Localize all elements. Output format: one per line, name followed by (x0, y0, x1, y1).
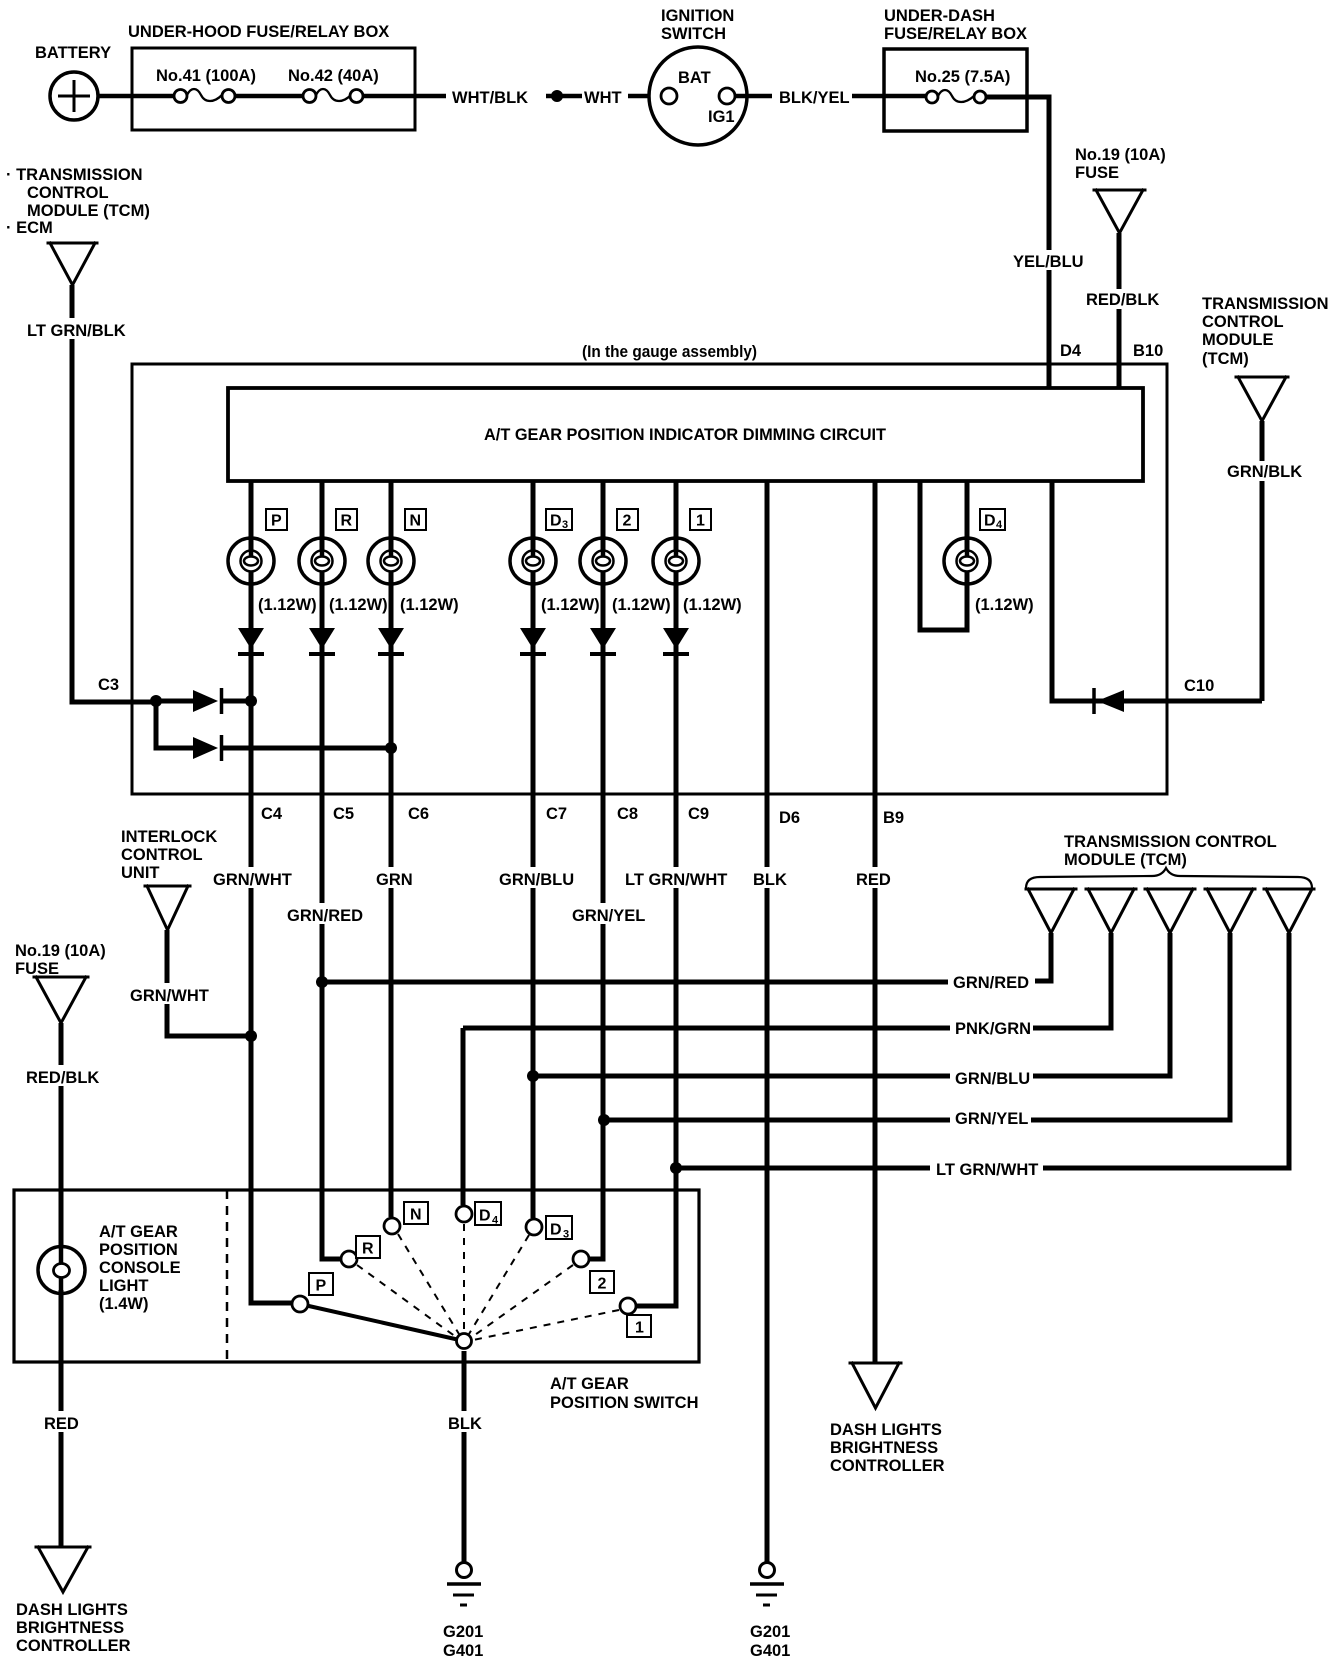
diode under bulb P (238, 628, 264, 654)
junction node on C4 (245, 1030, 257, 1042)
svg-text:(In the gauge assembly): (In the gauge assembly) (582, 343, 757, 361)
svg-text:G401: G401 (443, 1642, 483, 1660)
svg-text:D: D (479, 1208, 491, 1225)
svg-text:CONTROLLER: CONTROLLER (830, 1457, 945, 1475)
wire C4 corner to P contact (251, 1300, 292, 1303)
svg-text:POSITION: POSITION (99, 1241, 178, 1259)
battery (50, 72, 98, 120)
contact N (384, 1218, 400, 1234)
contact R (341, 1251, 357, 1267)
svg-text:A/T GEAR: A/T GEAR (550, 1375, 629, 1393)
wire console light down (59, 1290, 64, 1548)
svg-text:LIGHT: LIGHT (99, 1277, 149, 1295)
A/T gear position indicator dimming circuit box (228, 388, 1143, 481)
svg-text:(1.12W): (1.12W) (329, 596, 388, 614)
wire column B9 (873, 481, 878, 794)
svg-text:D4: D4 (1060, 342, 1082, 360)
svg-text:(1.12W): (1.12W) (612, 596, 671, 614)
GRN/BLU stub to TCM pin 3 (1033, 933, 1170, 1076)
YEL/BLU label (1011, 250, 1086, 271)
label box 2 (617, 509, 638, 530)
TCM/ECM connector triangle (left) (48, 243, 97, 285)
TCM connector triangle (right) (1236, 377, 1288, 421)
svg-text:G201: G201 (443, 1623, 483, 1641)
GRN/YEL label (569, 903, 645, 925)
bulb P (228, 538, 274, 584)
TCM pin triangle 2 (1086, 889, 1136, 933)
wire column N (C6) (389, 481, 394, 794)
wire column D3 (C7) (531, 481, 536, 794)
svg-text:RED: RED (44, 1415, 79, 1433)
terminal IG1 (719, 88, 735, 104)
wire to WHT/BLK label (363, 94, 446, 99)
svg-text:P: P (271, 513, 282, 530)
under-dash fuse/relay box (884, 49, 1027, 131)
LT GRN/WHT line (676, 1166, 930, 1171)
svg-text:RED/BLK: RED/BLK (26, 1069, 99, 1087)
svg-text:GRN/YEL: GRN/YEL (955, 1110, 1028, 1128)
svg-text:CONTROL: CONTROL (121, 846, 203, 864)
svg-text:RED: RED (856, 871, 891, 889)
svg-text:No.42 (40A): No.42 (40A) (288, 67, 379, 85)
dashed line D4 to common (463, 1224, 465, 1333)
wire to BLK/YEL (736, 94, 772, 99)
TCM pin triangle 1 (1026, 889, 1076, 933)
label box 1 (switch) (627, 1315, 651, 1337)
wire LT GRN/BLK down to C3 (72, 285, 156, 702)
svg-text:G201: G201 (750, 1623, 790, 1641)
junction node (551, 90, 563, 102)
junction node on C5 (316, 976, 328, 988)
C3 branch wire to diode 1 (156, 699, 193, 704)
RED label (853, 867, 894, 889)
svg-text:C9: C9 (688, 805, 709, 823)
dashed line R to common (357, 1265, 456, 1337)
svg-text:· ECM: · ECM (6, 219, 53, 237)
dashed line N to common (398, 1234, 459, 1334)
svg-text:No.19 (10A): No.19 (10A) (15, 942, 106, 960)
svg-text:C3: C3 (98, 676, 119, 694)
junction node C3 (150, 695, 162, 707)
svg-text:R: R (341, 513, 353, 530)
dashed divider (226, 1190, 229, 1362)
PNK/GRN stub to TCM pin 2 (1033, 933, 1111, 1028)
GRN/BLK label (1225, 461, 1302, 481)
svg-text:DASH LIGHTS: DASH LIGHTS (830, 1421, 942, 1439)
bulb D4 (944, 538, 990, 584)
svg-text:INTERLOCK: INTERLOCK (121, 828, 217, 846)
fuse No.42 (303, 89, 363, 103)
TCM pin triangle 4 (1205, 889, 1255, 933)
label box R (switch) (356, 1236, 380, 1258)
wire YEL/BLU from fuse down to gauge assembly D4 (986, 97, 1049, 388)
contact 1 (620, 1298, 636, 1314)
diode under bulb 1 (663, 628, 689, 654)
svg-text:No.19 (10A): No.19 (10A) (1075, 146, 1166, 164)
wire C9 corner to 1 contact (637, 1302, 676, 1306)
contact D3 (526, 1219, 542, 1235)
svg-text:TRANSMISSION: TRANSMISSION (1202, 295, 1329, 313)
svg-text:BRIGHTNESS: BRIGHTNESS (830, 1439, 938, 1457)
svg-text:TRANSMISSION CONTROL: TRANSMISSION CONTROL (1064, 833, 1277, 851)
svg-text:FUSE/RELAY BOX: FUSE/RELAY BOX (884, 25, 1027, 43)
svg-text:UNDER-HOOD FUSE/RELAY BOX: UNDER-HOOD FUSE/RELAY BOX (128, 23, 389, 41)
svg-text:N: N (410, 1207, 422, 1224)
svg-text:BLK: BLK (448, 1415, 482, 1433)
contact 2 (573, 1251, 589, 1267)
label box 2 (switch) (590, 1271, 614, 1293)
wire column D6 (765, 481, 770, 794)
GRN label (373, 867, 415, 889)
svg-text:GRN/BLK: GRN/BLK (1227, 463, 1302, 481)
svg-text:N: N (410, 513, 422, 530)
svg-text:C7: C7 (546, 805, 567, 823)
svg-text:BRIGHTNESS: BRIGHTNESS (16, 1619, 124, 1637)
common contact (457, 1334, 472, 1349)
svg-text:(1.12W): (1.12W) (400, 596, 459, 614)
svg-text:BLK: BLK (753, 871, 787, 889)
interlock GRN/WHT wire to C4 (167, 930, 251, 1036)
svg-text:C4: C4 (261, 805, 283, 823)
wiper P to common (solid) (300, 1304, 464, 1341)
wire RED/BLK down to console light (59, 1023, 64, 1247)
BLK wire label (switch ground) (445, 1411, 485, 1433)
svg-text:3: 3 (562, 519, 568, 531)
svg-text:PNK/GRN: PNK/GRN (955, 1020, 1031, 1038)
wire D6 (BLK) down to ground (765, 794, 770, 1563)
svg-text:(TCM): (TCM) (1202, 350, 1249, 368)
svg-text:RED/BLK: RED/BLK (1086, 291, 1159, 309)
wire segment with junction (546, 94, 582, 99)
svg-text:GRN/WHT: GRN/WHT (213, 871, 292, 889)
C10 drop wire from dimming circuit (1052, 481, 1262, 701)
svg-text:(1.12W): (1.12W) (683, 596, 742, 614)
svg-text:A/T GEAR: A/T GEAR (99, 1223, 178, 1241)
junction node on C8 (598, 1114, 610, 1126)
ground G201/G401 (switch) (447, 1563, 481, 1606)
LT GRN/BLK label (24, 318, 134, 340)
wire into under-dash box (852, 94, 926, 99)
wire to ignition switch (628, 94, 662, 99)
svg-text:No.25 (7.5A): No.25 (7.5A) (915, 68, 1010, 86)
svg-text:1: 1 (696, 513, 705, 530)
wire C8 corner to 2 contact (590, 1255, 603, 1259)
label box D3 (546, 509, 572, 531)
svg-text:(1.12W): (1.12W) (541, 596, 600, 614)
svg-text:GRN/WHT: GRN/WHT (130, 987, 209, 1005)
svg-text:WHT: WHT (584, 89, 622, 107)
wire column 2 (C8) (601, 481, 606, 794)
svg-text:(1.4W): (1.4W) (99, 1295, 149, 1313)
GRN/YEL stub to TCM pin 4 (1031, 933, 1230, 1120)
junction node on C9 (670, 1162, 682, 1174)
svg-text:GRN: GRN (376, 871, 413, 889)
wire diode1 to column P (223, 699, 251, 704)
label box D3 (switch) (546, 1216, 572, 1241)
GRN/BLU line (533, 1074, 950, 1079)
wire C9 (LT GRN/WHT) below gauge box (674, 794, 679, 1306)
diode under bulb N (378, 628, 404, 654)
A/T gear position switch box (14, 1190, 699, 1362)
dashed line D3 to common (469, 1235, 529, 1334)
svg-text:LT GRN/WHT: LT GRN/WHT (625, 871, 727, 889)
svg-text:2: 2 (623, 513, 632, 530)
wire diode2 to column N (223, 746, 391, 751)
svg-text:C6: C6 (408, 805, 429, 823)
RED wire label (left) (41, 1411, 82, 1433)
svg-text:GRN/YEL: GRN/YEL (572, 907, 645, 925)
TCM connector brace (1026, 868, 1312, 888)
TCM pin triangle 5 (1264, 889, 1314, 933)
svg-text:D: D (984, 513, 996, 530)
svg-text:MODULE (TCM): MODULE (TCM) (27, 202, 150, 220)
wire C4 (GRN/WHT) below gauge box (249, 794, 254, 1303)
label box P (switch) (309, 1273, 333, 1295)
dash lights brightness controller triangle (left) (36, 1547, 90, 1592)
wire C7 (GRN/BLU) below gauge box (531, 794, 536, 1218)
contact P (292, 1296, 308, 1312)
svg-text:(1.12W): (1.12W) (258, 596, 317, 614)
bulb 1 (653, 538, 699, 584)
wire C5 (GRN/RED) below gauge box (320, 794, 325, 1259)
dashed line 1 to common (473, 1310, 619, 1340)
fuse No.19 connector triangle (left) (34, 977, 88, 1023)
svg-text:D6: D6 (779, 809, 800, 827)
svg-text:LT GRN/BLK: LT GRN/BLK (27, 322, 126, 340)
label box N (switch) (404, 1202, 428, 1224)
svg-text:BLK/YEL: BLK/YEL (779, 89, 850, 107)
gauge assembly outer box (132, 364, 1167, 794)
GRN/YEL line (604, 1118, 950, 1123)
label box N (405, 509, 426, 530)
interlock connector triangle (145, 886, 190, 930)
wire C6 (GRN) below gauge box (389, 794, 394, 1217)
svg-text:BATTERY: BATTERY (35, 44, 111, 62)
svg-text:WHT/BLK: WHT/BLK (452, 89, 528, 107)
svg-text:FUSE: FUSE (1075, 164, 1119, 182)
svg-text:2: 2 (598, 1276, 607, 1293)
label box D4 (switch) (475, 1202, 501, 1227)
svg-text:D: D (550, 1222, 562, 1239)
wire column 1 (C9) (674, 481, 679, 794)
svg-text:UNIT: UNIT (121, 864, 160, 882)
wire B9 (RED) down to controller (873, 794, 878, 1364)
svg-text:4: 4 (996, 519, 1003, 531)
svg-text:3: 3 (563, 1229, 569, 1241)
svg-text:GRN/RED: GRN/RED (287, 907, 363, 925)
fuse No.19 connector triangle (right) (1094, 190, 1145, 233)
svg-text:UNDER-DASH: UNDER-DASH (884, 7, 995, 25)
fuse No.41 (174, 89, 235, 103)
GRN/RED line to TCM (322, 980, 948, 985)
wire RED/BLK down to B10 (1117, 233, 1122, 388)
console light bulb (38, 1247, 85, 1294)
diode D (C3 upper) (193, 688, 222, 714)
PNK/GRN line from D4 switch column (463, 1026, 950, 1031)
fuse No.25 (926, 90, 986, 103)
svg-text:B10: B10 (1133, 342, 1163, 360)
svg-text:CONTROLLER: CONTROLLER (16, 1637, 131, 1655)
GRN/WHT interlock label (127, 983, 210, 1005)
label box 1 (690, 509, 711, 530)
wire common to ground (462, 1351, 467, 1563)
diode under bulb 2 (590, 628, 616, 654)
RED/BLK label (1084, 289, 1159, 309)
contact D4 (456, 1206, 472, 1222)
terminal BAT (661, 88, 677, 104)
svg-text:MODULE (TCM): MODULE (TCM) (1064, 851, 1187, 869)
bulb R (299, 538, 345, 584)
svg-text:(1.12W): (1.12W) (975, 596, 1034, 614)
BLK label (750, 867, 787, 889)
svg-text:YEL/BLU: YEL/BLU (1013, 253, 1084, 271)
wire column R (C5) (320, 481, 325, 794)
svg-text:CONSOLE: CONSOLE (99, 1259, 181, 1277)
svg-text:BAT: BAT (678, 69, 711, 87)
svg-text:· TRANSMISSION: · TRANSMISSION (6, 166, 143, 184)
junction node on column N (385, 742, 397, 754)
svg-text:FUSE: FUSE (15, 960, 59, 978)
svg-text:No.41 (100A): No.41 (100A) (156, 67, 256, 85)
svg-text:C10: C10 (1184, 677, 1214, 695)
svg-text:A/T GEAR POSITION INDICATOR DI: A/T GEAR POSITION INDICATOR DIMMING CIRC… (484, 426, 886, 444)
GRN/BLU label (496, 867, 576, 889)
wire between fuses (235, 94, 303, 99)
svg-text:1: 1 (635, 1320, 644, 1337)
TCM pin triangle 3 (1145, 889, 1195, 933)
GRN/RED stub to TCM pin 1 (1035, 933, 1051, 981)
svg-text:GRN/BLU: GRN/BLU (499, 871, 574, 889)
svg-text:4: 4 (492, 1215, 499, 1227)
svg-text:LT GRN/WHT: LT GRN/WHT (936, 1161, 1038, 1179)
svg-text:D: D (550, 513, 562, 530)
svg-text:G401: G401 (750, 1642, 790, 1660)
wire loop for D4 bulb (920, 481, 967, 630)
wire GRN/BLK down (1260, 421, 1265, 701)
svg-text:MODULE: MODULE (1202, 331, 1274, 349)
dashed line 2 to common (472, 1265, 573, 1337)
svg-text:IG1: IG1 (708, 108, 735, 126)
svg-text:R: R (362, 1241, 374, 1258)
wire battery to under-hood box (98, 94, 174, 99)
svg-text:GRN/RED: GRN/RED (953, 974, 1029, 992)
diode under bulb R (309, 628, 335, 654)
diode (C10) pointing left (1094, 688, 1124, 714)
RED/BLK label (left) (24, 1065, 99, 1087)
svg-text:CONTROL: CONTROL (1202, 313, 1284, 331)
label box P (266, 509, 287, 530)
svg-text:C5: C5 (333, 805, 354, 823)
GRN/RED label (284, 903, 363, 925)
bulb D3 (510, 538, 556, 584)
svg-text:SWITCH: SWITCH (661, 25, 726, 43)
wire D4 column down to contact (461, 1028, 466, 1205)
wire column P (C4) inside gauge box (249, 481, 254, 794)
under-hood fuse/relay box (132, 48, 415, 130)
dash lights brightness controller triangle (right) (850, 1363, 901, 1408)
C3 lower branch wire (156, 701, 193, 748)
svg-text:IGNITION: IGNITION (661, 7, 734, 25)
wire C8 (GRN/YEL) below gauge box (601, 794, 606, 1259)
svg-text:P: P (316, 1278, 327, 1295)
svg-text:GRN/BLU: GRN/BLU (955, 1070, 1030, 1088)
label box D4 (980, 509, 1005, 531)
label box R (336, 509, 357, 530)
ignition switch (649, 47, 747, 145)
bulb 2 (580, 538, 626, 584)
diode under bulb D3 (520, 628, 546, 654)
junction node on column P (245, 695, 257, 707)
diode D (C3 lower) (193, 735, 222, 761)
junction node on C7 (527, 1070, 539, 1082)
svg-text:C8: C8 (617, 805, 638, 823)
GRN/WHT wire label (210, 867, 293, 889)
svg-text:B9: B9 (883, 809, 904, 827)
LT GRN/WHT label (622, 867, 730, 889)
svg-text:POSITION SWITCH: POSITION SWITCH (550, 1394, 699, 1412)
ground G201/G401 (D6) (750, 1563, 784, 1606)
wire C5 corner to R contact (322, 1255, 340, 1259)
LT GRN/WHT stub to TCM pin 5 (1043, 933, 1289, 1168)
svg-text:DASH LIGHTS: DASH LIGHTS (16, 1601, 128, 1619)
svg-text:CONTROL: CONTROL (27, 184, 109, 202)
bulb N (368, 538, 414, 584)
